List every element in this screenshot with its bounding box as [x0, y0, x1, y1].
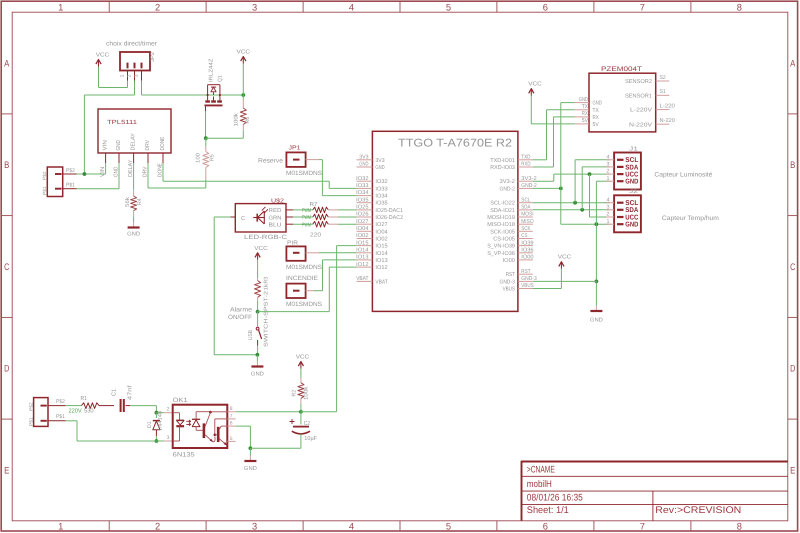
svg-text:>CNAME: >CNAME [527, 464, 555, 475]
svg-text:SDA-IO21: SDA-IO21 [490, 208, 515, 214]
svg-text:C2: C2 [304, 420, 310, 427]
svg-text:SWITCH-SPST-2: SWITCH-SPST-2 [263, 291, 269, 347]
svg-text:IO27: IO27 [375, 222, 387, 228]
svg-text:E: E [790, 465, 795, 476]
svg-text:Rev:>CREVISION: Rev:>CREVISION [655, 505, 741, 516]
svg-text:IO13: IO13 [375, 258, 387, 264]
svg-text:PWM: PWM [302, 215, 311, 221]
svg-text:J1: J1 [629, 146, 638, 152]
svg-text:MISO-IO18: MISO-IO18 [487, 222, 515, 228]
svg-text:220: 220 [310, 232, 321, 239]
svg-text:SCL: SCL [625, 157, 639, 164]
svg-text:N-220: N-220 [660, 118, 675, 124]
svg-text:Capteur Luminosité: Capteur Luminosité [654, 171, 712, 178]
svg-text:IO34: IO34 [356, 190, 368, 196]
svg-text:2: 2 [607, 212, 610, 218]
svg-text:P$2: P$2 [66, 168, 75, 174]
svg-text:SCL: SCL [521, 197, 530, 203]
svg-text:2: 2 [155, 2, 160, 13]
svg-text:RX: RX [593, 115, 599, 121]
svg-text:ON/OFF: ON/OFF [228, 314, 252, 321]
svg-text:IO25: IO25 [356, 205, 368, 211]
svg-text:PWM: PWM [302, 222, 311, 228]
svg-text:A: A [4, 59, 10, 70]
svg-text:GRN: GRN [269, 215, 282, 221]
svg-text:IO00: IO00 [503, 258, 515, 264]
svg-text:MOSI: MOSI [521, 212, 534, 218]
svg-text:56k: 56k [125, 197, 131, 207]
svg-text:IO14: IO14 [356, 247, 368, 253]
svg-text:1: 1 [607, 219, 610, 225]
svg-text:TX: TX [582, 104, 588, 110]
svg-text:1: 1 [120, 74, 126, 77]
svg-text:P$2: P$2 [28, 402, 33, 411]
svg-text:7: 7 [640, 522, 645, 533]
svg-text:R1: R1 [81, 396, 87, 402]
svg-text:L-220V: L-220V [630, 108, 652, 114]
svg-text:8: 8 [230, 406, 233, 412]
svg-text:VCC: VCC [558, 254, 572, 261]
svg-text:IO02: IO02 [356, 233, 368, 239]
svg-text:VIN: VIN [103, 140, 109, 150]
svg-text:GND: GND [590, 318, 603, 324]
svg-text:VBUS: VBUS [503, 287, 516, 293]
svg-text:MISO: MISO [521, 219, 534, 225]
svg-text:5: 5 [230, 436, 233, 442]
svg-text:10µF: 10µF [304, 435, 317, 442]
svg-text:VCC: VCC [528, 81, 542, 88]
svg-text:6N135: 6N135 [173, 452, 196, 459]
svg-text:VBUS: VBUS [521, 283, 534, 289]
svg-text:1: 1 [58, 2, 63, 13]
svg-text:1: 1 [58, 522, 63, 533]
svg-text:JP2: JP2 [150, 52, 156, 62]
svg-text:4: 4 [607, 197, 610, 203]
svg-text:CS-IO05: CS-IO05 [493, 237, 515, 243]
svg-text:TXD-IO01: TXD-IO01 [490, 158, 515, 164]
svg-text:GND: GND [593, 101, 602, 107]
svg-text:R4: R4 [137, 198, 143, 205]
svg-text:3: 3 [134, 74, 140, 77]
svg-text:100k: 100k [304, 386, 310, 400]
svg-text:SDA: SDA [625, 207, 638, 214]
svg-text:D: D [790, 364, 795, 375]
svg-text:220V: 220V [69, 408, 82, 415]
svg-text:3: 3 [252, 522, 257, 533]
svg-text:RX: RX [582, 111, 588, 117]
svg-text:R5: R5 [210, 154, 216, 161]
svg-text:3: 3 [607, 204, 610, 210]
svg-text:2: 2 [127, 74, 133, 77]
svg-text:IO25-DAC1: IO25-DAC1 [375, 208, 403, 214]
svg-text:GND: GND [359, 162, 368, 168]
svg-text:UCC: UCC [625, 172, 638, 179]
svg-text:3: 3 [252, 2, 257, 13]
svg-text:3V3: 3V3 [375, 158, 384, 164]
svg-text:M01SMDNS: M01SMDNS [286, 301, 322, 308]
svg-text:RST: RST [521, 269, 531, 275]
svg-text:GND: GND [375, 165, 384, 171]
svg-text:M01SMDNS: M01SMDNS [286, 170, 322, 177]
svg-text:7: 7 [640, 2, 645, 13]
svg-text:IO34: IO34 [375, 194, 387, 200]
svg-text:IO35: IO35 [375, 201, 387, 207]
svg-text:GND: GND [625, 179, 638, 186]
svg-text:P$1: P$1 [66, 183, 75, 189]
svg-text:GND: GND [251, 372, 264, 378]
svg-text:SCK-IO05: SCK-IO05 [490, 229, 515, 235]
svg-text:RXD-IO03: RXD-IO03 [490, 165, 515, 171]
svg-text:VCC: VCC [296, 354, 310, 361]
svg-text:GND-3: GND-3 [500, 279, 515, 285]
svg-text:IO32: IO32 [356, 176, 368, 182]
svg-text:C: C [241, 215, 245, 222]
svg-text:C: C [4, 262, 9, 273]
svg-text:GND: GND [579, 97, 588, 103]
svg-text:R3: R3 [263, 277, 269, 284]
svg-text:mobilH: mobilH [527, 479, 552, 490]
svg-text:M01SMDNS: M01SMDNS [286, 264, 322, 271]
svg-text:IO36: IO36 [521, 247, 533, 253]
svg-text:BLU: BLU [269, 223, 282, 229]
svg-text:3: 3 [167, 435, 170, 441]
svg-text:P$2: P$2 [56, 399, 65, 405]
svg-text:D1: D1 [147, 421, 153, 428]
svg-text:D: D [4, 364, 9, 375]
svg-text:DELAY: DELAY [131, 133, 137, 151]
svg-text:2: 2 [607, 169, 610, 175]
svg-text:C: C [790, 262, 795, 273]
svg-text:UCC: UCC [625, 214, 638, 221]
svg-text:A: A [790, 59, 796, 70]
svg-text:6: 6 [543, 522, 548, 533]
svg-text:SENSOR1: SENSOR1 [625, 93, 652, 99]
svg-text:N-220V: N-220V [629, 122, 652, 128]
svg-text:8: 8 [737, 2, 742, 13]
svg-text:TX: TX [593, 108, 599, 114]
svg-text:7: 7 [230, 413, 233, 419]
svg-text:B: B [790, 160, 795, 171]
svg-text:4: 4 [607, 154, 610, 160]
svg-text:Q1: Q1 [218, 75, 224, 82]
svg-text:SDA: SDA [625, 164, 638, 171]
svg-text:3: 3 [607, 162, 610, 168]
svg-text:100k: 100k [233, 113, 239, 127]
svg-text:IO02: IO02 [375, 237, 387, 243]
svg-text:CS: CS [521, 233, 527, 239]
svg-text:Alarme: Alarme [230, 306, 253, 313]
svg-text:SCL: SCL [625, 200, 639, 207]
svg-text:PZEM004T: PZEM004T [601, 66, 642, 73]
svg-text:IRLZ44Z: IRLZ44Z [209, 58, 215, 82]
svg-text:6: 6 [230, 421, 233, 427]
svg-text:IO12: IO12 [356, 262, 368, 268]
svg-text:IO13: IO13 [356, 255, 368, 261]
svg-text:5V: 5V [593, 122, 599, 128]
svg-text:E: E [4, 465, 9, 476]
svg-text:IO39: IO39 [521, 240, 533, 246]
svg-text:S_VN-IO39: S_VN-IO39 [487, 244, 515, 250]
svg-text:5: 5 [446, 2, 451, 13]
svg-text:VBAT: VBAT [356, 276, 369, 282]
svg-text:DRV: DRV [145, 140, 151, 151]
svg-text:GND: GND [244, 466, 257, 472]
svg-text:IO35: IO35 [356, 197, 368, 203]
svg-text:VCC: VCC [96, 52, 110, 59]
svg-text:IO04: IO04 [356, 226, 368, 232]
svg-text:GND-2: GND-2 [500, 186, 515, 192]
svg-text:IO26-DAC2: IO26-DAC2 [375, 215, 403, 221]
svg-text:IO00: IO00 [521, 255, 533, 261]
svg-text:100: 100 [196, 153, 202, 163]
svg-text:IO15: IO15 [356, 240, 368, 246]
svg-text:RST: RST [506, 272, 516, 278]
svg-text:P$1: P$1 [28, 417, 33, 426]
svg-text:R2: R2 [291, 390, 297, 397]
svg-text:1N4148: 1N4148 [158, 411, 164, 431]
svg-text:R6: R6 [245, 117, 251, 124]
svg-text:4: 4 [349, 2, 354, 13]
svg-text:SCL-IO22: SCL-IO22 [490, 201, 515, 207]
svg-text:VCC: VCC [237, 49, 251, 56]
svg-text:Capteur Temp/hum: Capteur Temp/hum [662, 215, 719, 222]
svg-text:C1: C1 [111, 389, 118, 396]
svg-text:RED: RED [269, 208, 282, 214]
svg-text:5V: 5V [582, 118, 588, 124]
svg-text:JP1: JP1 [289, 146, 301, 152]
svg-text:3V3-2: 3V3-2 [500, 179, 515, 185]
svg-text:IO26: IO26 [356, 212, 368, 218]
svg-text:TXD: TXD [521, 155, 530, 161]
svg-text:2: 2 [155, 522, 160, 533]
svg-text:P$1: P$1 [56, 414, 65, 420]
svg-text:08/01/26 16:35: 08/01/26 16:35 [527, 493, 583, 504]
svg-text:S_VP-IO36: S_VP-IO36 [487, 251, 515, 257]
svg-text:IO12: IO12 [375, 265, 387, 271]
svg-text:8: 8 [737, 522, 742, 533]
svg-text:530: 530 [84, 408, 94, 415]
svg-text:IO32: IO32 [375, 179, 387, 185]
svg-text:Reserve: Reserve [258, 157, 284, 164]
svg-text:LED-RGB-C: LED-RGB-C [244, 234, 288, 241]
svg-text:RXD: RXD [521, 162, 530, 168]
svg-text:GND: GND [625, 222, 638, 229]
svg-text:1: 1 [607, 176, 610, 182]
svg-text:SDA: SDA [521, 205, 530, 211]
svg-text:Sheet: 1/1: Sheet: 1/1 [527, 505, 569, 516]
svg-text:VBAT: VBAT [375, 279, 388, 285]
svg-text:1k: 1k [263, 283, 269, 290]
svg-text:TPL5111: TPL5111 [107, 119, 138, 126]
svg-text:PWM: PWM [302, 208, 311, 214]
svg-text:OK1: OK1 [173, 397, 189, 404]
svg-text:SENSOR2: SENSOR2 [625, 79, 652, 85]
svg-text:IO14: IO14 [375, 251, 387, 257]
svg-text:IO04: IO04 [375, 229, 387, 235]
svg-text:3V3: 3V3 [359, 155, 368, 161]
svg-text:MOSI-IO19: MOSI-IO19 [487, 215, 515, 221]
svg-text:VCC: VCC [254, 245, 268, 252]
svg-text:GND: GND [127, 232, 140, 238]
svg-text:S2: S2 [660, 75, 666, 81]
svg-text:SCK: SCK [521, 226, 530, 232]
svg-text:B: B [4, 160, 9, 171]
svg-text:IO33: IO33 [356, 183, 368, 189]
svg-text:USB: USB [248, 330, 254, 340]
svg-text:INCENDIE: INCENDIE [286, 275, 318, 282]
svg-text:DONE: DONE [160, 136, 166, 150]
svg-text:IO15: IO15 [375, 244, 387, 250]
svg-text:TTGO T-A7670E R2: TTGO T-A7670E R2 [398, 138, 512, 150]
svg-text:6: 6 [543, 2, 548, 13]
svg-text:2: 2 [167, 407, 170, 413]
svg-text:47nf: 47nf [127, 385, 134, 400]
svg-text:J2: J2 [629, 189, 638, 195]
svg-text:IO33: IO33 [375, 186, 387, 192]
svg-text:L-220: L-220 [660, 103, 675, 109]
svg-text:P$2: P$2 [42, 171, 47, 180]
svg-text:S1: S1 [660, 89, 666, 95]
svg-text:IO27: IO27 [356, 219, 368, 225]
svg-text:5: 5 [446, 522, 451, 533]
svg-text:4: 4 [349, 522, 354, 533]
svg-text:GND: GND [116, 140, 122, 150]
svg-text:P$1: P$1 [42, 186, 47, 195]
svg-text:choix direct/timer: choix direct/timer [106, 41, 158, 48]
